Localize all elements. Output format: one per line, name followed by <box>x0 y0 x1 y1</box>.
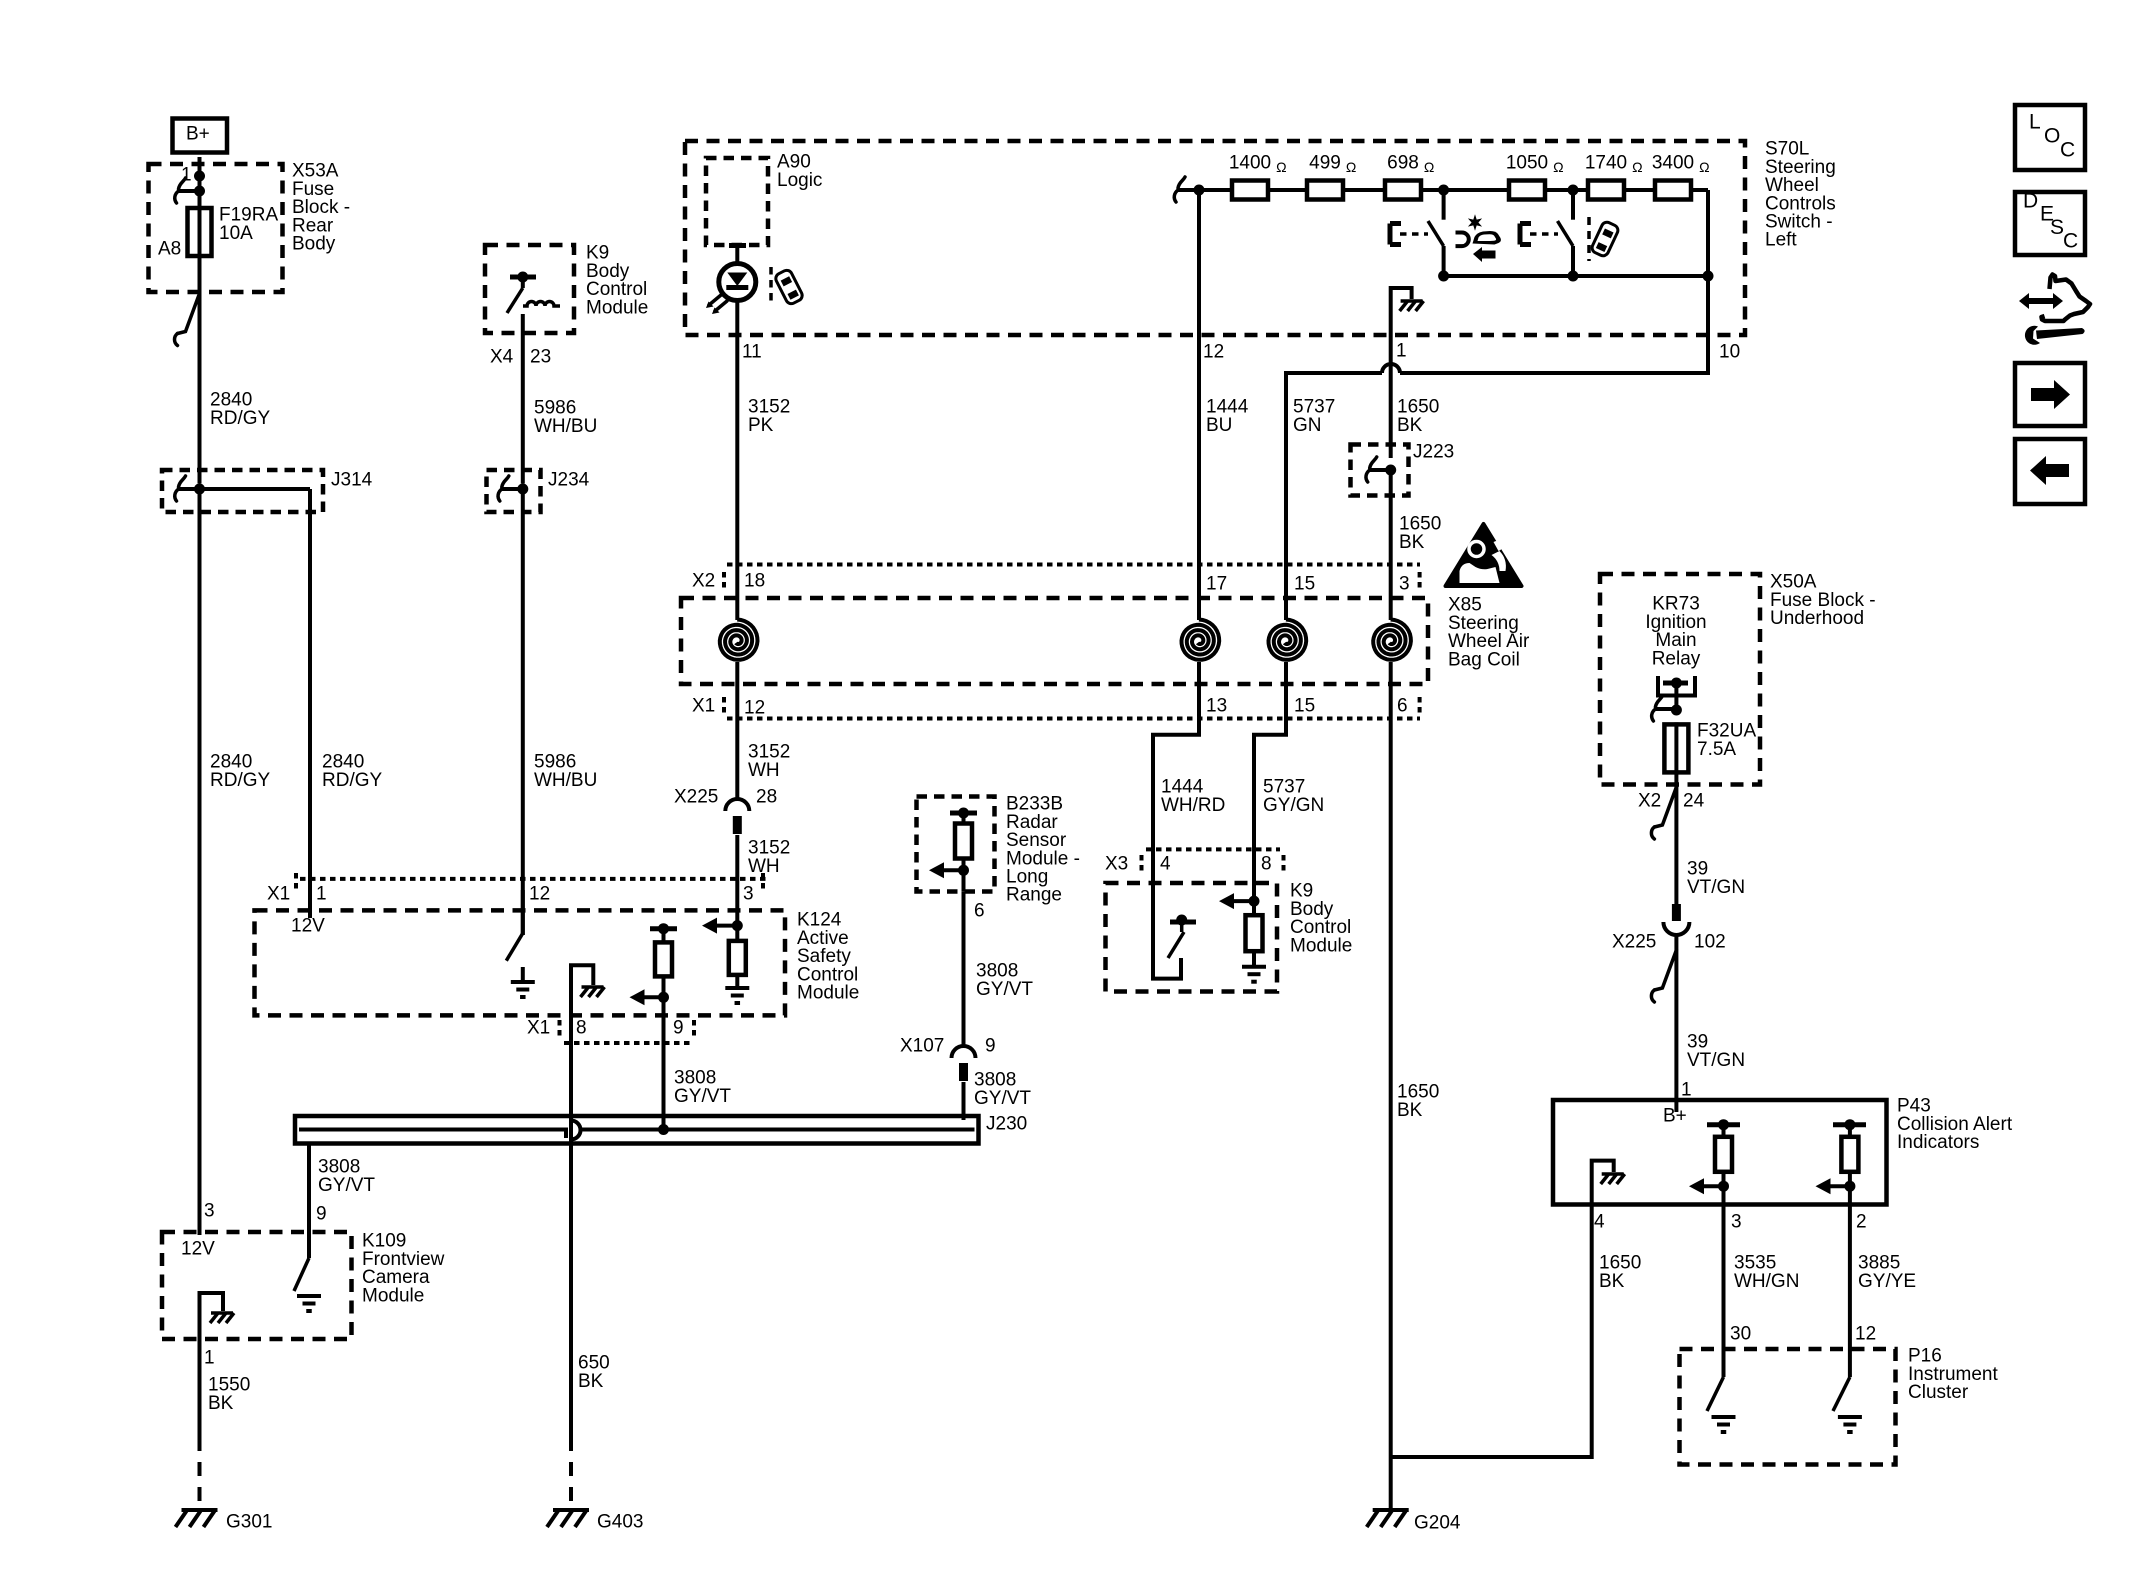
svg-text:G403: G403 <box>597 1512 643 1533</box>
svg-text:X107: X107 <box>900 1036 944 1057</box>
svg-text:102: 102 <box>1694 932 1726 953</box>
wire 3152 PK pin 11 to X2-18 <box>735 301 739 565</box>
svg-text:BK: BK <box>208 1393 234 1414</box>
indicator resistor P43 pin 3 <box>1707 1122 1740 1127</box>
svg-text:10A: 10A <box>219 223 253 244</box>
big dashed box A90 S70L assembly <box>685 141 1745 335</box>
svg-text:WH/RD: WH/RD <box>1161 795 1225 816</box>
fuse F32UA 7.5A <box>1674 722 1678 774</box>
air bag coil dashed box X85 <box>681 598 1428 684</box>
node S70L resistor chain left <box>1194 185 1205 196</box>
svg-text:6: 6 <box>1397 696 1408 717</box>
node bottom sw2 <box>1568 271 1579 282</box>
svg-text:X1: X1 <box>692 696 715 717</box>
icon box next arrow <box>2015 363 2085 426</box>
svg-text:BK: BK <box>578 1371 604 1392</box>
svg-text:Relay: Relay <box>1652 648 1701 669</box>
E contact switch 1 <box>1388 224 1393 245</box>
svg-text:WH/BU: WH/BU <box>534 416 597 437</box>
wire 3885 GY/YE P43 to P16 <box>1848 1205 1852 1350</box>
wire 2840 RD/GY right branch J314 to K124 pin X1-1 <box>308 489 312 918</box>
resistor on K124 pin 9 <box>650 926 677 931</box>
resistor in B233B <box>955 824 972 859</box>
svg-text:Ω: Ω <box>1346 159 1356 175</box>
airbag SRS warning triangle <box>1446 524 1522 586</box>
switch to ground K109 pin 9 <box>307 1232 311 1258</box>
svg-text:Ω: Ω <box>1699 159 1709 175</box>
svg-text:1: 1 <box>1396 341 1407 362</box>
coil zigzag in K9 <box>523 302 560 307</box>
dashed wire to G301 <box>198 1437 202 1509</box>
chassis ground K124 pin 8 <box>582 985 604 989</box>
wire chain to right edge <box>1691 188 1708 192</box>
node switch 1 top <box>1438 185 1449 196</box>
wire resistor chain <box>1199 188 1232 192</box>
coil spiral 3 <box>1269 620 1307 660</box>
inline connector X107 pin 9 <box>952 1046 976 1058</box>
fuse F19RA 10A <box>198 206 202 258</box>
ground G204 <box>1389 1457 1393 1509</box>
svg-text:J234: J234 <box>548 470 590 491</box>
svg-text:BK: BK <box>1599 1271 1625 1292</box>
connector branch symbol below X53A <box>178 294 200 334</box>
relay KR73 contact symbol <box>1658 676 1695 696</box>
S70L internal ground wire pin 1 <box>1391 288 1412 335</box>
connector row X2 dotted line <box>727 563 1420 567</box>
svg-text:RD/GY: RD/GY <box>210 770 271 791</box>
crossover hop over pin1 wire <box>1382 364 1400 373</box>
lane keep assist icon <box>1587 217 1591 261</box>
LED indicator lamp <box>719 264 756 301</box>
indicator resistor P43 pin 2 <box>1833 1122 1866 1127</box>
svg-text:RD/GY: RD/GY <box>210 408 271 429</box>
wire 3152 WH X225 to K124 X1-3 <box>735 835 739 890</box>
chassis ground in S70L <box>1401 299 1423 303</box>
wire S70L pin 10 route <box>1400 276 1708 373</box>
svg-text:C: C <box>2060 139 2075 162</box>
svg-text:1050: 1050 <box>1506 153 1548 174</box>
earth ground K9 pin 8 <box>1242 965 1266 969</box>
node J314 <box>194 484 205 495</box>
svg-text:X2: X2 <box>692 571 715 592</box>
power symbol B+ <box>173 119 228 153</box>
svg-text:J230: J230 <box>986 1114 1027 1135</box>
inline connector X225 pin 102 <box>1672 904 1681 921</box>
module K9 Body Control Module dashed box mid <box>1106 883 1278 992</box>
svg-text:Ω: Ω <box>1632 159 1642 175</box>
wire and node in B233B <box>962 859 966 892</box>
svg-text:12V: 12V <box>291 916 325 937</box>
svg-text:Range: Range <box>1006 885 1062 906</box>
svg-text:12: 12 <box>1203 342 1224 363</box>
pull resistor on K124 pin 3 <box>735 890 739 941</box>
svg-text:WH/BU: WH/BU <box>534 770 597 791</box>
svg-text:GN: GN <box>1293 415 1322 436</box>
wire 5986 WH/BU K9 to J234 <box>521 314 525 484</box>
icon box LOC <box>2015 105 2085 170</box>
resistor 698 ohm <box>1385 181 1421 200</box>
svg-text:J223: J223 <box>1413 442 1454 463</box>
svg-text:BK: BK <box>1399 532 1425 553</box>
ground G301 <box>182 1508 218 1512</box>
E contact switch 2 <box>1518 224 1523 245</box>
svg-text:2: 2 <box>1856 1212 1867 1233</box>
module K124 Active Safety Control Module dashed box <box>255 910 786 1015</box>
svg-text:1: 1 <box>1681 1080 1692 1101</box>
supply bar in B233B <box>950 811 977 816</box>
fuse block X50A dashed box <box>1600 574 1760 785</box>
connector row X1 dotted line <box>727 717 1420 721</box>
svg-text:Cluster: Cluster <box>1908 1382 1969 1403</box>
svg-text:Left: Left <box>1765 230 1797 251</box>
svg-text:Module: Module <box>797 983 859 1004</box>
chassis ground in P43 <box>1602 1172 1624 1176</box>
svg-text:Body: Body <box>292 234 336 255</box>
resistor 1400 ohm <box>1232 181 1268 200</box>
svg-text:Indicators: Indicators <box>1897 1132 1979 1153</box>
connector row X3 of K9 <box>1146 847 1280 851</box>
inline connector X225 pin 28 <box>725 799 749 811</box>
wire X50A to X225 <box>1674 772 1678 904</box>
splice J223 dashed box <box>1351 445 1409 496</box>
connector hook in J223 <box>1370 457 1377 468</box>
svg-text:Logic: Logic <box>777 170 822 191</box>
splice J234 dashed box <box>487 470 541 512</box>
logic block A90 dashed box <box>706 158 768 245</box>
svg-text:X1: X1 <box>267 884 290 905</box>
connector hook S70L pin 12 node <box>1178 177 1185 188</box>
svg-text:8: 8 <box>1261 854 1272 875</box>
switch 2 lane keep stalk <box>1571 190 1575 220</box>
svg-text:Module: Module <box>586 297 648 318</box>
wire 1650 BK J223 to X2-3 <box>1389 470 1393 565</box>
svg-text:A8: A8 <box>158 239 181 260</box>
module B233B Radar Sensor dashed box <box>917 797 995 892</box>
svg-text:O: O <box>2044 125 2060 148</box>
svg-text:GY/VT: GY/VT <box>974 1088 1031 1109</box>
wire <box>1545 188 1588 192</box>
ground arm in P43 <box>1592 1161 1614 1205</box>
relay driver contact in K9 <box>510 275 536 280</box>
node J234 <box>517 484 528 495</box>
signal arrow in B233B <box>939 868 962 872</box>
LED emission arrows <box>709 295 721 305</box>
ground arm K124 pin 8 <box>571 965 593 1015</box>
wire 3808 GY/VT K124 pin9 to J230 <box>662 1016 666 1130</box>
svg-text:4: 4 <box>1594 1212 1605 1233</box>
connector row X1 top of K124 <box>300 877 766 881</box>
resistor 1050 ohm <box>1509 181 1545 200</box>
svg-text:9: 9 <box>673 1018 684 1039</box>
node pin 1 of X53A <box>194 171 205 182</box>
svg-text:C: C <box>2063 230 2078 253</box>
wire 2840 RD/GY left branch J314 to K109 pin 3 <box>198 489 202 1235</box>
svg-text:12: 12 <box>744 698 765 719</box>
node bottom sw1 <box>1438 271 1449 282</box>
earth ground K124 pin 12 <box>511 980 535 984</box>
node J223 <box>1385 465 1396 476</box>
svg-text:L: L <box>2029 111 2041 134</box>
earth ground K109 pin 9 <box>297 1294 321 1298</box>
svg-text:Underhood: Underhood <box>1770 608 1864 629</box>
icon box DESC <box>2015 192 2085 255</box>
wire 1444 BU pin 12 to X2-17 <box>1197 190 1201 565</box>
switch to ground on K124 pin 12 <box>521 890 525 935</box>
svg-text:BK: BK <box>1397 415 1423 436</box>
wire 1650 BK pin 1 to J223 <box>1389 335 1393 458</box>
icon repair info <box>2019 275 2090 345</box>
svg-text:B+: B+ <box>186 124 210 145</box>
svg-text:698: 698 <box>1387 153 1419 174</box>
collision alert icon <box>1456 214 1501 262</box>
svg-text:Ω: Ω <box>1276 159 1286 175</box>
bottom line of S70L switches <box>1444 274 1708 278</box>
svg-text:D: D <box>2023 190 2038 213</box>
svg-text:12: 12 <box>529 884 550 905</box>
wire pin1 to fuse F19RA <box>198 176 202 208</box>
svg-text:GY/VT: GY/VT <box>674 1086 731 1107</box>
ground G403 <box>553 1508 589 1512</box>
svg-text:BU: BU <box>1206 415 1232 436</box>
lane departure icon next to LED <box>769 267 773 305</box>
svg-text:1400: 1400 <box>1229 153 1271 174</box>
resistor 1740 ohm <box>1588 181 1624 200</box>
wire 2840 RD/GY from fuse to J314 <box>198 256 202 484</box>
svg-text:G301: G301 <box>226 1512 272 1533</box>
coil spiral 4 <box>1373 620 1411 660</box>
switch to ground P16 pin 12 <box>1848 1349 1852 1377</box>
svg-text:1740: 1740 <box>1585 153 1627 174</box>
svg-text:3: 3 <box>1731 1212 1742 1233</box>
wire 1650 BK X1-6 to G204 <box>1389 719 1393 1458</box>
svg-text:G204: G204 <box>1414 1513 1461 1534</box>
svg-text:1: 1 <box>204 1348 215 1369</box>
svg-text:PK: PK <box>748 415 774 436</box>
svg-text:Ω: Ω <box>1553 159 1563 175</box>
node and arrow K124 pin 9 <box>658 992 669 1003</box>
svg-text:4: 4 <box>1160 854 1171 875</box>
module P16 Instrument Cluster dashed box <box>1680 1349 1896 1465</box>
svg-text:VT/GN: VT/GN <box>1687 877 1745 898</box>
svg-text:1: 1 <box>316 884 327 905</box>
svg-text:X3: X3 <box>1105 854 1128 875</box>
svg-text:Module: Module <box>1290 935 1352 956</box>
wire <box>1624 188 1655 192</box>
svg-text:23: 23 <box>530 347 551 368</box>
svg-text:X225: X225 <box>674 787 718 808</box>
connector row X1 bottom of K124 <box>564 1041 690 1045</box>
wire 3808 GY/VT B233B to X107 <box>962 892 966 1046</box>
connector hook in J314 <box>179 476 186 487</box>
svg-text:15: 15 <box>1294 696 1315 717</box>
node J230 pin9 wire <box>658 1124 669 1135</box>
svg-text:6: 6 <box>974 901 985 922</box>
svg-text:GY/GN: GY/GN <box>1263 795 1324 816</box>
svg-text:15: 15 <box>1294 574 1315 595</box>
svg-text:S: S <box>2050 216 2064 239</box>
svg-text:9: 9 <box>316 1204 327 1225</box>
svg-text:30: 30 <box>1730 1324 1751 1345</box>
wire J314 horizontal branch <box>200 487 311 491</box>
switch to ground P16 pin 30 <box>1722 1349 1726 1377</box>
svg-text:10: 10 <box>1719 342 1740 363</box>
svg-text:499: 499 <box>1309 153 1341 174</box>
wire 3808 GY/VT X107 to J230 <box>962 1082 966 1120</box>
earth ground P16 pin 30 <box>1712 1415 1736 1419</box>
svg-text:X4: X4 <box>490 347 514 368</box>
wire <box>1421 188 1509 192</box>
dashed wire to G403 <box>569 1437 573 1509</box>
switch symbol on K9 pin 4 <box>1153 883 1181 979</box>
node switch 2 top <box>1568 185 1579 196</box>
wire A90 to LED <box>729 243 746 248</box>
switch blade in K9 <box>507 288 523 313</box>
module P43 Collision Alert Indicators box <box>1553 1100 1887 1205</box>
wire <box>1268 188 1307 192</box>
svg-text:Ω: Ω <box>1424 159 1434 175</box>
wire <box>1343 188 1385 192</box>
svg-text:Bag Coil: Bag Coil <box>1448 649 1520 670</box>
earth ground P16 pin 12 <box>1838 1415 1862 1419</box>
resistor 3400 ohm <box>1655 181 1691 200</box>
svg-text:B+: B+ <box>1663 1106 1687 1127</box>
earth ground K124 pin 3 <box>725 986 749 990</box>
wire 1444 WH/RD X1-13 to K9 X3-4 <box>1153 719 1199 884</box>
svg-text:X225: X225 <box>1612 932 1656 953</box>
node arrow and resistor on K9 pin 8 <box>1252 883 1256 915</box>
svg-text:17: 17 <box>1206 574 1227 595</box>
svg-text:12V: 12V <box>181 1239 215 1260</box>
splice bus J230 <box>295 1116 979 1144</box>
svg-text:3400: 3400 <box>1652 153 1694 174</box>
coil spiral 2 <box>1182 620 1220 660</box>
svg-text:3: 3 <box>1399 574 1410 595</box>
module K9 Body Control Module dashed box top <box>485 245 574 333</box>
connector hook in X50A <box>1655 696 1662 707</box>
chassis ground in K109 <box>211 1311 233 1315</box>
connector hook in J234 <box>502 476 509 487</box>
svg-text:WH: WH <box>748 760 780 781</box>
svg-text:GY/YE: GY/YE <box>1858 1271 1916 1292</box>
svg-text:13: 13 <box>1206 696 1227 717</box>
wire stubs through coils <box>735 565 739 621</box>
svg-text:8: 8 <box>576 1018 587 1039</box>
module K109 Frontview Camera dashed box <box>162 1232 352 1339</box>
wire 3808 GY/VT J230 to K109 pin 9 <box>307 1143 311 1253</box>
svg-text:X1: X1 <box>527 1018 550 1039</box>
svg-text:J314: J314 <box>331 470 373 491</box>
svg-text:X2: X2 <box>1638 791 1661 812</box>
svg-text:WH/GN: WH/GN <box>1734 1271 1799 1292</box>
switch 1 collision alert stalk <box>1442 190 1446 220</box>
svg-text:GY/VT: GY/VT <box>318 1175 375 1196</box>
wire 5986 WH/BU J234 to K124 pin X1-12 <box>521 489 525 935</box>
svg-text:BK: BK <box>1397 1100 1423 1121</box>
wire 3152 WH X1-12 to X225 <box>735 719 739 800</box>
node bottom right <box>1703 271 1714 282</box>
ground arm in K109 <box>200 1293 224 1339</box>
wire 3535 WH/GN P43 to P16 <box>1722 1205 1726 1350</box>
svg-text:3: 3 <box>743 884 754 905</box>
svg-text:9: 9 <box>985 1036 996 1057</box>
wire K124 pin8 to G403 through J230 <box>569 1016 573 1437</box>
svg-text:GY/VT: GY/VT <box>976 979 1033 1000</box>
svg-text:24: 24 <box>1683 791 1705 812</box>
svg-text:3: 3 <box>204 1201 215 1222</box>
svg-text:Module: Module <box>362 1285 424 1306</box>
wire B+ to fuse block pin 1 <box>198 157 202 176</box>
svg-text:18: 18 <box>744 571 765 592</box>
wire 1550 BK <box>198 1339 202 1437</box>
resistor 499 ohm <box>1307 181 1343 200</box>
wire 39 VT/GN X225 to P43 pin 1 <box>1674 935 1678 1112</box>
wire 1650 BK P43 pin4 to G204 <box>1391 1205 1592 1458</box>
icon box back arrow <box>2015 439 2085 504</box>
connector branch below X225-102 <box>1654 950 1676 990</box>
svg-text:12: 12 <box>1855 1324 1876 1345</box>
wire 5737 GY/GN X1-15 to K9 X3-8 <box>1254 719 1286 884</box>
connector hook at X53A pin 1 <box>179 178 186 189</box>
fuse block X53A dashed box <box>149 164 283 292</box>
svg-text:28: 28 <box>756 787 777 808</box>
svg-text:RD/GY: RD/GY <box>322 770 383 791</box>
right vertical of chain <box>1706 190 1710 276</box>
connector branch at X2 24 <box>1654 787 1676 827</box>
splice J314 dashed box <box>162 470 323 512</box>
coil spiral 1 <box>720 620 758 660</box>
svg-text:11: 11 <box>742 342 762 363</box>
svg-text:7.5A: 7.5A <box>1697 739 1736 760</box>
svg-text:VT/GN: VT/GN <box>1687 1050 1745 1071</box>
